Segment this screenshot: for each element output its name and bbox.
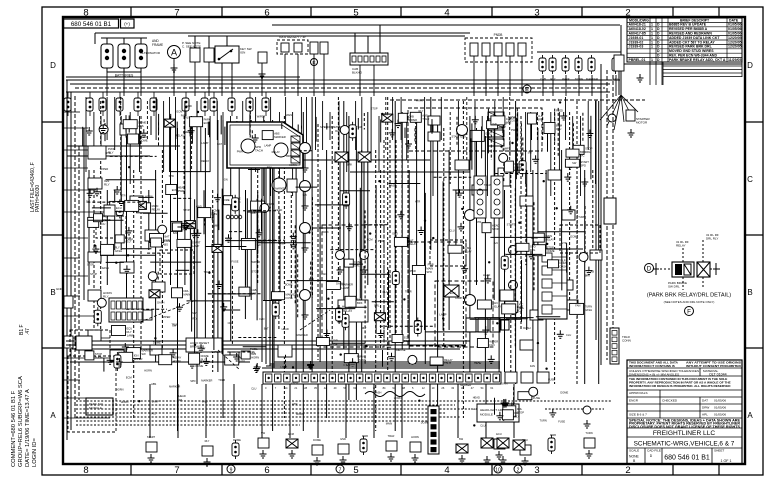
wire <box>531 117 533 140</box>
lamp <box>497 438 509 448</box>
component <box>503 406 516 417</box>
svg-text:BRK: BRK <box>537 118 543 122</box>
component <box>177 239 191 247</box>
wire <box>363 113 365 130</box>
wire <box>473 56 475 96</box>
svg-text:STOP: STOP <box>492 227 499 231</box>
wire <box>182 223 196 225</box>
wire <box>100 254 156 256</box>
component <box>482 223 491 233</box>
right rail wire <box>595 100 597 340</box>
fuse F17 <box>201 92 208 116</box>
wire <box>176 269 190 271</box>
svg-text:LAMP: LAMP <box>279 242 286 246</box>
lamp <box>184 221 195 229</box>
wire <box>243 346 267 348</box>
wire <box>249 115 251 140</box>
ground <box>496 451 503 459</box>
wire <box>246 198 248 296</box>
svg-text:SW: SW <box>86 200 91 204</box>
component <box>386 441 397 451</box>
svg-text:5: 5 <box>353 465 358 476</box>
svg-text:HEAD: HEAD <box>282 327 289 331</box>
module outline <box>408 242 466 346</box>
wire <box>481 126 483 158</box>
wire <box>361 273 390 275</box>
fuse <box>342 311 349 330</box>
wire <box>404 128 406 138</box>
wire <box>257 192 259 255</box>
trailer connector <box>610 328 619 364</box>
component <box>544 123 555 134</box>
left rail branches <box>64 112 110 418</box>
svg-text:TRLR: TRLR <box>218 378 225 382</box>
ground <box>585 267 592 275</box>
svg-text:D: D <box>747 61 753 70</box>
bus wire <box>76 424 300 426</box>
label <box>342 305 353 313</box>
wire <box>143 212 168 214</box>
zone tick <box>400 7 402 17</box>
junction <box>208 272 210 274</box>
component <box>272 292 285 300</box>
svg-text:RELAY: RELAY <box>463 250 472 254</box>
ground <box>557 330 564 338</box>
wire <box>591 75 593 96</box>
component <box>498 168 510 186</box>
connector <box>336 251 345 260</box>
wire <box>304 192 306 203</box>
wire <box>88 219 124 221</box>
component <box>472 185 485 195</box>
fuse F14 <box>134 92 141 116</box>
junction <box>154 337 156 339</box>
lamp <box>149 290 160 298</box>
svg-text:BRK: BRK <box>357 301 363 305</box>
park brake relay detail <box>672 262 710 277</box>
fuse <box>114 352 121 371</box>
wire <box>357 118 359 130</box>
wire <box>513 384 515 438</box>
bundle wire <box>265 168 267 364</box>
svg-text:DRL: DRL <box>374 304 380 308</box>
gauge circles column <box>509 246 518 315</box>
component <box>101 244 114 255</box>
wire <box>248 169 260 171</box>
svg-text:DOME: DOME <box>233 438 241 442</box>
svg-text:HTR: HTR <box>292 402 297 406</box>
connector <box>360 251 369 260</box>
wire <box>310 262 312 293</box>
wire <box>620 25 622 95</box>
component <box>94 214 103 222</box>
wire <box>261 199 263 232</box>
left rail wire <box>78 146 80 400</box>
component <box>548 170 561 180</box>
zone tick <box>42 121 63 123</box>
wire <box>173 197 192 199</box>
component <box>410 442 421 452</box>
wire <box>332 342 365 344</box>
wire <box>140 72 142 96</box>
svg-text:DRL: DRL <box>585 150 591 154</box>
ignition switch <box>215 36 239 70</box>
fuse F13 <box>116 92 123 116</box>
left rail wire <box>70 92 72 430</box>
junction <box>543 180 545 182</box>
svg-text:MAIN: MAIN <box>386 421 393 425</box>
svg-text:ECM: ECM <box>126 376 132 380</box>
svg-text:DRL: DRL <box>184 289 190 293</box>
wire <box>191 240 193 332</box>
svg-text:WITHOUT CONSENT PROHIBITED: WITHOUT CONSENT PROHIBITED <box>686 364 742 368</box>
svg-text:STOP: STOP <box>87 263 94 267</box>
ground <box>581 178 588 186</box>
wire <box>470 318 522 320</box>
svg-text:MAIN: MAIN <box>359 358 366 362</box>
svg-text:8: 8 <box>83 465 88 476</box>
component <box>537 372 549 383</box>
module M9 <box>86 398 113 415</box>
component <box>470 130 484 141</box>
module outline <box>68 356 116 432</box>
svg-text:RELAY: RELAY <box>152 207 161 211</box>
circled number <box>514 465 522 473</box>
svg-text:FEED: FEED <box>471 407 478 411</box>
svg-text:ECM: ECM <box>570 235 576 239</box>
component <box>520 445 531 455</box>
zone tick <box>745 347 763 349</box>
component <box>505 301 518 312</box>
wire <box>208 293 253 295</box>
wire <box>375 185 377 334</box>
svg-text:TRLR: TRLR <box>484 183 491 187</box>
ground <box>182 222 189 230</box>
svg-text:RLY: RLY <box>362 326 367 330</box>
wire <box>497 56 499 96</box>
ground <box>191 230 198 238</box>
svg-text:SCALE: SCALE <box>629 449 639 453</box>
component <box>64 336 73 348</box>
svg-text:ECM: ECM <box>204 121 211 125</box>
component <box>530 310 543 320</box>
svg-text:CAB: CAB <box>408 114 414 118</box>
wire mesh verticals upper <box>86 97 596 196</box>
svg-text:CAB: CAB <box>589 270 595 274</box>
svg-text:7: 7 <box>174 465 179 476</box>
svg-text:4: 4 <box>444 465 449 476</box>
component <box>128 134 139 144</box>
component <box>130 196 143 206</box>
svg-text:WIPER: WIPER <box>134 357 143 361</box>
svg-text:TURN: TURN <box>381 113 388 117</box>
battery B2 <box>118 38 130 72</box>
svg-text:HEAD: HEAD <box>473 395 480 399</box>
wire <box>522 138 524 163</box>
svg-text:DASH: DASH <box>514 162 522 166</box>
zone tick <box>42 347 63 349</box>
svg-text:DOME: DOME <box>153 341 161 345</box>
svg-text:TURN: TURN <box>585 304 593 308</box>
svg-text:FRAME: FRAME <box>152 43 163 47</box>
svg-text:1: 1 <box>651 40 653 44</box>
svg-text:ECU: ECU <box>517 308 523 312</box>
svg-text:HORN: HORN <box>411 435 419 439</box>
label <box>352 67 363 75</box>
svg-text:SW: SW <box>459 437 464 441</box>
svg-text:TURN: TURN <box>116 210 124 214</box>
svg-text:WIPER: WIPER <box>408 118 417 122</box>
junction <box>127 254 129 256</box>
svg-text:12/20/05: 12/20/05 <box>728 40 742 44</box>
ground <box>259 70 266 78</box>
component <box>241 351 250 359</box>
svg-text:TRLR: TRLR <box>559 259 566 263</box>
svg-text:1 OF 1: 1 OF 1 <box>721 459 732 463</box>
ground <box>388 353 395 361</box>
component <box>190 48 200 62</box>
connector strip <box>491 176 503 218</box>
component <box>344 354 358 363</box>
ground <box>94 188 101 196</box>
svg-text:SPD: SPD <box>169 174 174 178</box>
wire <box>87 201 141 203</box>
junction <box>365 345 367 347</box>
svg-text:START: START <box>507 222 516 226</box>
wire <box>520 123 522 169</box>
svg-text:ADDED CKT 587 TO RELAY: ADDED CKT 587 TO RELAY <box>669 40 715 44</box>
module <box>560 225 600 253</box>
wire <box>279 213 281 295</box>
ground <box>216 281 223 289</box>
svg-text:BRK: BRK <box>585 273 591 277</box>
zone tick <box>400 464 402 475</box>
svg-text:MARKER: MARKER <box>274 135 286 139</box>
wire <box>281 123 283 129</box>
svg-text:ECM: ECM <box>172 188 178 192</box>
label <box>152 39 163 47</box>
svg-text:01/05/06: 01/05/06 <box>714 399 726 403</box>
wire <box>495 173 547 175</box>
wire <box>227 351 253 353</box>
ground <box>337 266 344 274</box>
wire <box>373 65 375 96</box>
junction <box>424 220 426 222</box>
ground <box>114 186 121 194</box>
firewall connector <box>350 53 388 65</box>
svg-text:2: 2 <box>625 465 630 476</box>
svg-text:GND: GND <box>340 437 346 441</box>
svg-text:TURN: TURN <box>343 363 350 367</box>
svg-text:DASH: DASH <box>560 264 568 268</box>
fuse <box>232 440 239 459</box>
wire <box>407 140 409 340</box>
wire <box>350 171 470 173</box>
svg-text:DRL: DRL <box>514 411 520 415</box>
svg-text:10: 10 <box>495 467 501 473</box>
junction <box>546 243 548 245</box>
svg-text:ABS: ABS <box>422 113 428 117</box>
component <box>428 116 440 125</box>
wire <box>229 231 243 233</box>
svg-text:PWR: PWR <box>428 262 434 266</box>
svg-text:RLY: RLY <box>383 290 388 294</box>
svg-text:TRLR: TRLR <box>422 117 429 121</box>
wire <box>429 384 431 438</box>
connector <box>158 225 167 234</box>
fuse F5 <box>588 55 595 74</box>
wire <box>312 197 314 297</box>
wire <box>313 227 342 229</box>
wire <box>106 72 108 96</box>
ground <box>214 194 221 202</box>
svg-text:CLU: CLU <box>556 127 561 131</box>
svg-text:APPROVALS: APPROVALS <box>629 391 648 395</box>
wire <box>521 260 523 322</box>
svg-text:DOME: DOME <box>222 198 230 202</box>
ground <box>194 229 201 237</box>
ground <box>566 161 573 169</box>
bus wire <box>76 400 612 402</box>
component <box>312 445 323 455</box>
connector <box>499 153 508 162</box>
wire <box>284 54 286 96</box>
relay K1 <box>88 146 106 159</box>
svg-text:BAT: BAT <box>264 326 269 330</box>
svg-text:4: 4 <box>444 7 449 18</box>
wire <box>566 243 568 273</box>
ground <box>253 365 260 373</box>
component <box>344 259 353 267</box>
svg-text:6: 6 <box>264 7 269 18</box>
module outline <box>322 225 384 347</box>
svg-text:ECM: ECM <box>288 432 294 436</box>
svg-text:FAN: FAN <box>530 364 535 368</box>
svg-text:8: 8 <box>83 7 88 18</box>
svg-text:ECM: ECM <box>517 305 524 309</box>
svg-text:PNDB: PNDB <box>494 33 503 37</box>
ground <box>302 202 309 210</box>
svg-text:RELAY: RELAY <box>272 150 281 154</box>
wire <box>261 63 263 96</box>
svg-text:BAT: BAT <box>173 231 178 235</box>
wire <box>204 208 206 225</box>
wire <box>92 207 111 209</box>
junction <box>194 344 196 346</box>
wire <box>533 202 535 291</box>
module M10 <box>477 404 519 422</box>
svg-text:FAN: FAN <box>321 272 326 276</box>
svg-text:LAMP: LAMP <box>439 312 446 316</box>
fuse <box>501 253 508 272</box>
zone tick <box>581 7 583 17</box>
svg-text:DASH: DASH <box>336 281 343 285</box>
label <box>103 291 112 299</box>
fuse F2 <box>549 55 556 74</box>
bundle wire <box>269 168 271 366</box>
svg-text:FUSE: FUSE <box>533 396 540 400</box>
wire <box>209 122 211 138</box>
svg-text:TRLR: TRLR <box>508 116 515 120</box>
svg-text:DOME: DOME <box>140 139 148 143</box>
svg-text:MARKER: MARKER <box>297 333 308 337</box>
svg-text:HTR: HTR <box>240 360 246 364</box>
component <box>502 304 516 314</box>
svg-text:PARK: PARK <box>416 98 423 102</box>
bundle wire <box>270 363 500 365</box>
ground <box>188 127 195 135</box>
svg-text:(+): (+) <box>124 21 130 26</box>
wire <box>485 56 487 96</box>
component <box>123 120 137 129</box>
svg-text:ABS: ABS <box>212 212 218 216</box>
wire <box>138 196 153 198</box>
wire <box>511 402 513 415</box>
ground <box>123 265 130 273</box>
component <box>251 201 265 210</box>
svg-text:GND: GND <box>186 104 192 108</box>
wire <box>221 70 223 96</box>
ground <box>225 234 232 242</box>
lamp <box>135 201 146 209</box>
fuse F6 <box>612 55 619 74</box>
wire <box>618 71 620 95</box>
wire <box>330 249 374 251</box>
terminal strip <box>226 215 242 219</box>
connector <box>408 355 417 364</box>
svg-text:SW: SW <box>141 352 146 356</box>
svg-text:A/C: A/C <box>580 154 585 158</box>
plot stamp box <box>121 19 135 28</box>
component <box>410 112 421 122</box>
zone tick <box>310 464 312 475</box>
svg-text:STOP: STOP <box>547 246 554 250</box>
component <box>172 223 181 231</box>
ground <box>340 456 347 464</box>
label <box>508 115 518 123</box>
wire <box>345 384 347 438</box>
svg-text:DOME: DOME <box>421 421 429 425</box>
junction <box>432 237 434 239</box>
junction box <box>408 108 542 151</box>
svg-text:LAMP: LAMP <box>201 141 208 145</box>
svg-text:ECU: ECU <box>309 277 315 281</box>
wire <box>296 186 318 188</box>
zone tick <box>130 7 132 17</box>
junction <box>518 222 520 224</box>
svg-text:DOME: DOME <box>163 239 171 243</box>
wire <box>208 293 261 295</box>
svg-text:ADDED J1939 DATA LINK CKT: ADDED J1939 DATA LINK CKT <box>669 36 720 40</box>
svg-text:DRL: DRL <box>178 398 184 402</box>
wire <box>339 162 341 250</box>
wire <box>521 56 523 96</box>
wire <box>300 159 430 161</box>
wire <box>205 384 207 438</box>
wire <box>256 199 258 320</box>
circled number <box>227 465 235 473</box>
ground <box>461 265 468 273</box>
svg-text:RELAY: RELAY <box>444 358 453 362</box>
connector <box>340 126 349 135</box>
svg-text:MAIN: MAIN <box>414 319 421 323</box>
right rail wire <box>612 75 614 362</box>
connector strip <box>474 176 486 218</box>
svg-text:FUSE: FUSE <box>286 296 293 300</box>
wire <box>424 193 426 364</box>
wire <box>317 384 319 438</box>
junction <box>537 342 539 344</box>
